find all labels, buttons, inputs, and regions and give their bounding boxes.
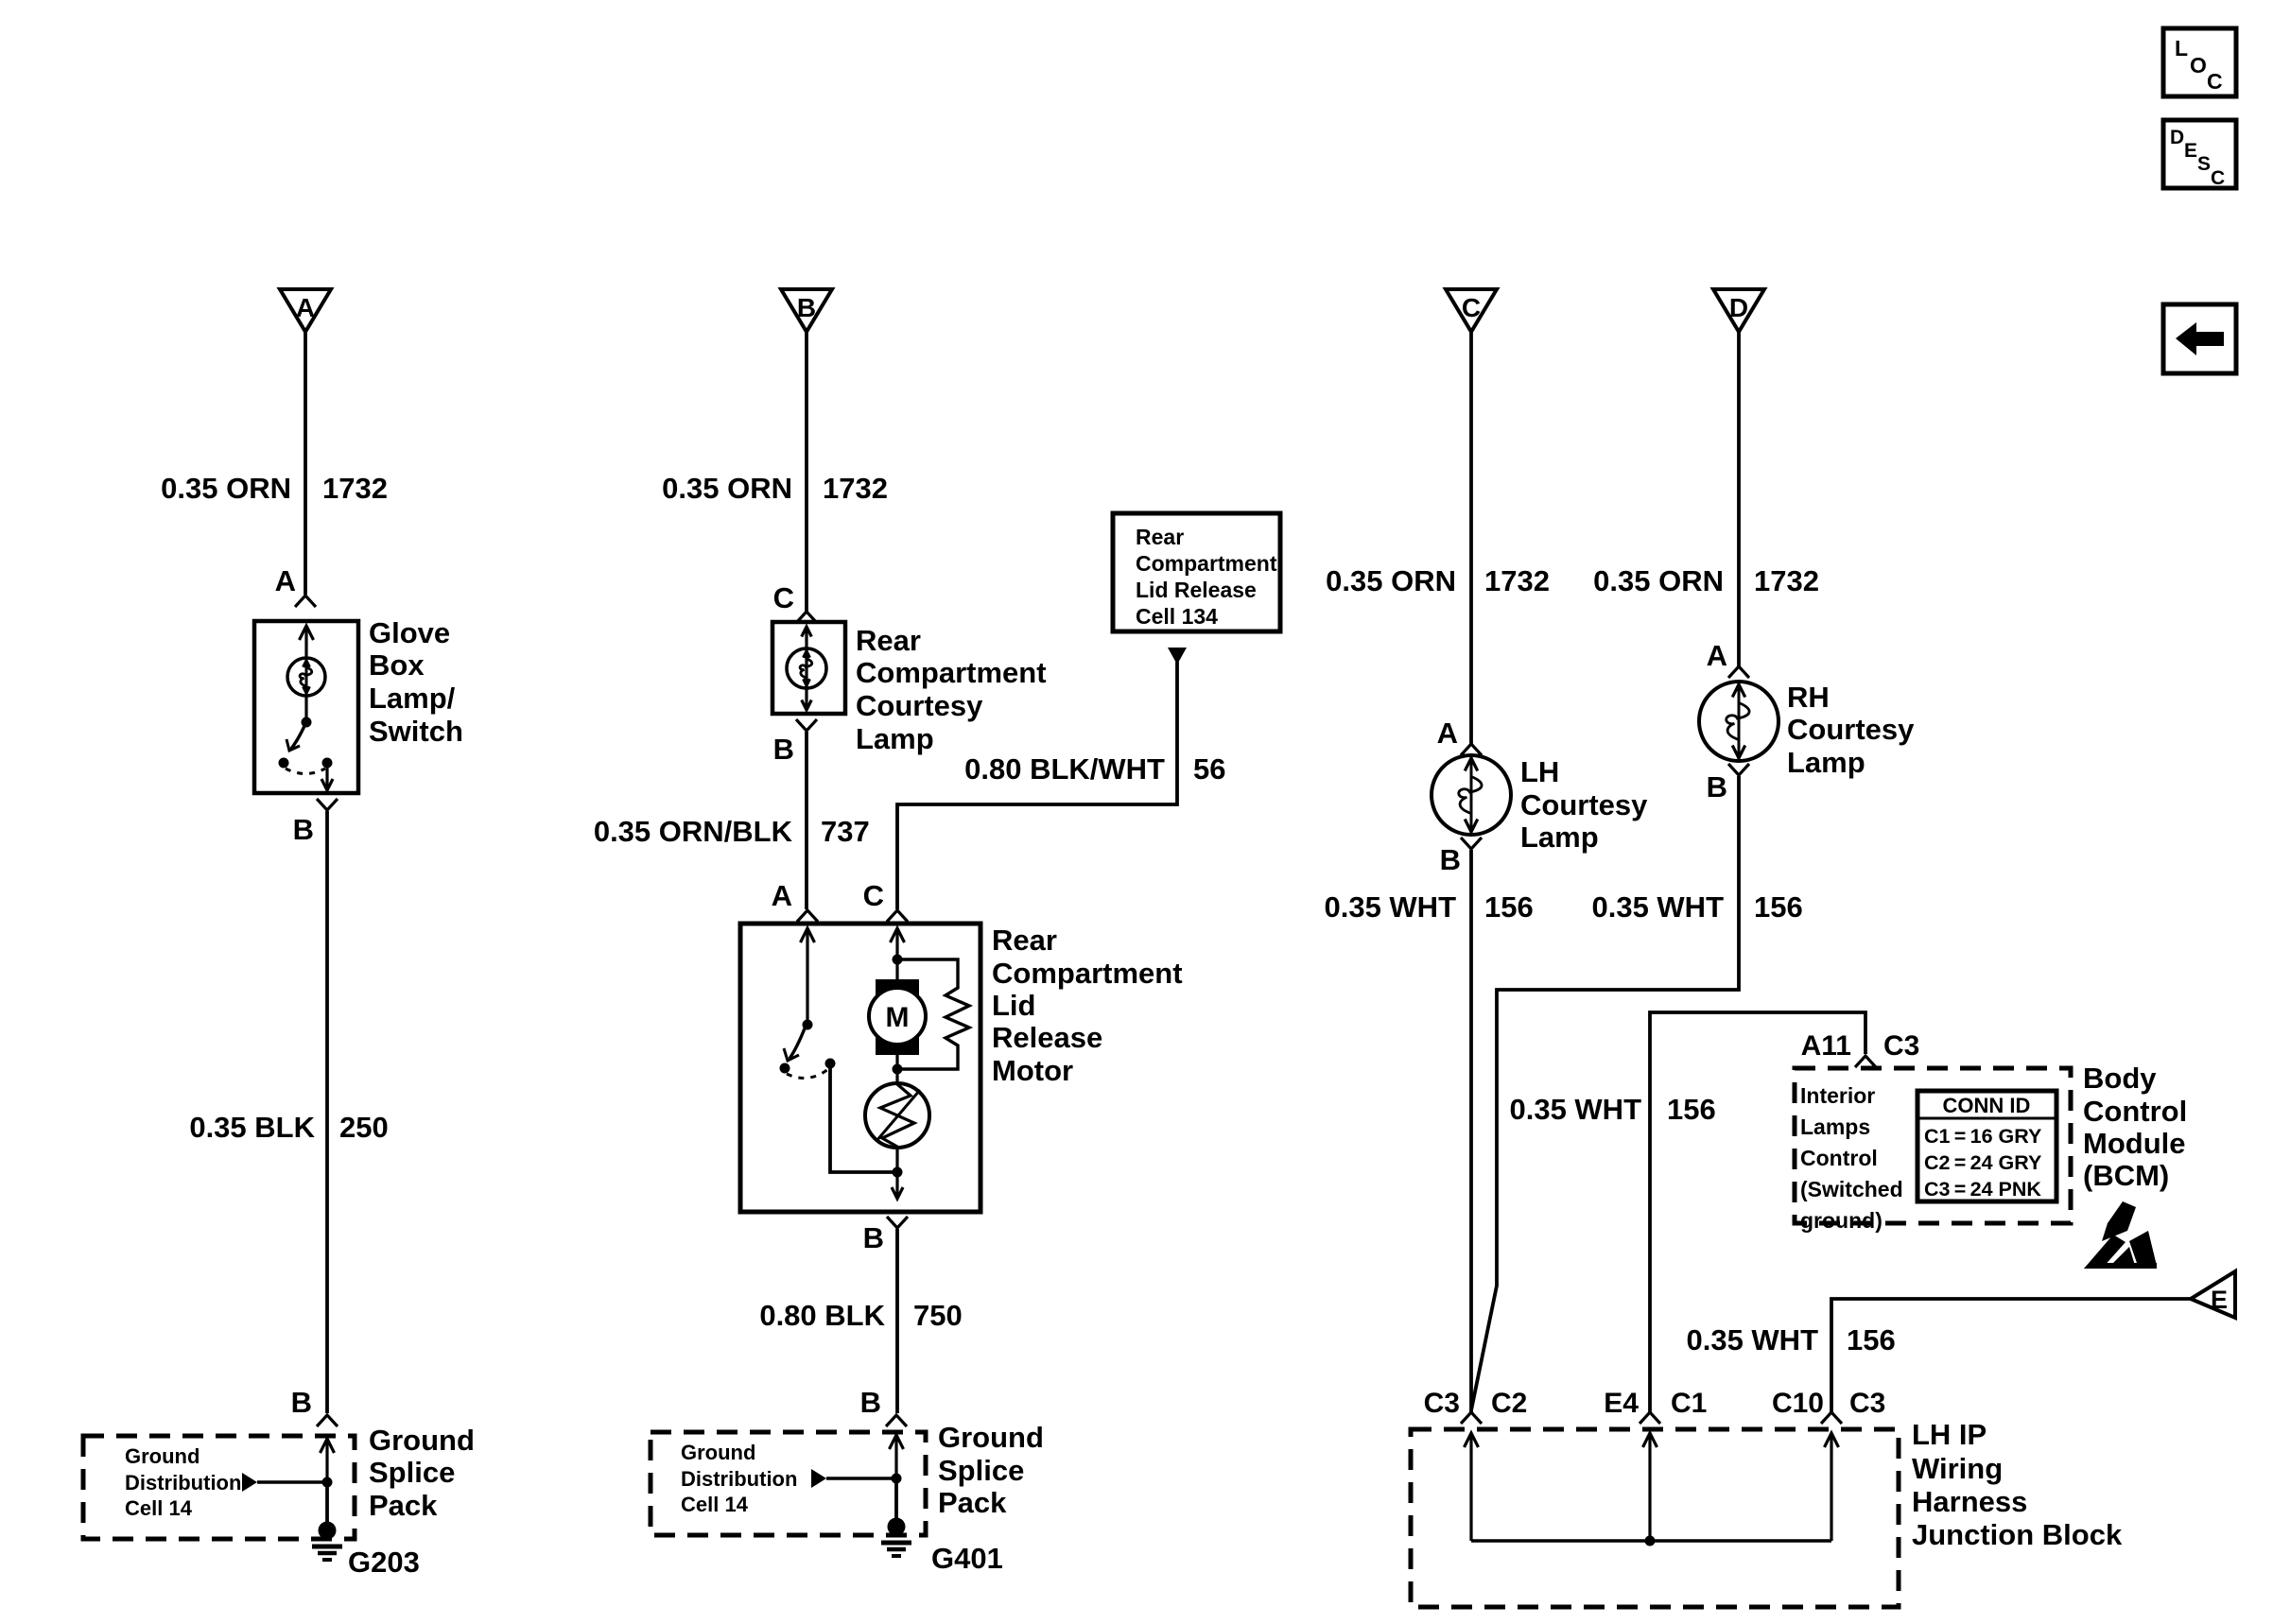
pin A11 terminal [1855, 1056, 1876, 1067]
svg-text:B: B [797, 293, 816, 322]
pin E4 label [1604, 1388, 1639, 1419]
svg-text:Body: Body [2083, 1062, 2157, 1095]
svg-text:Cell 14: Cell 14 [125, 1496, 193, 1520]
wire 0.35 ORN/BLK 737 [805, 732, 808, 909]
svg-text:Glove: Glove [369, 616, 450, 649]
ground distribution feed arrow [242, 1473, 327, 1492]
wire 0.35 ORN 1732 (B to lamp) [805, 332, 808, 612]
svg-text:Box: Box [369, 648, 425, 682]
LH IP junction block box [1411, 1429, 1899, 1607]
interior lamps control note [1800, 1083, 1903, 1233]
LH IP junction block label [1912, 1418, 2123, 1551]
pin C3/C2 terminal [1461, 1412, 1482, 1424]
splice input arrow [321, 1439, 335, 1482]
pin C10 label [1772, 1388, 1824, 1419]
DESC page-index box [2163, 120, 2236, 189]
wire 0.35 ORN 1732 (A to glove box) [304, 332, 307, 595]
body control module box [1795, 1068, 2071, 1223]
svg-text:E: E [2211, 1286, 2228, 1314]
wire 0.80 BLK/WHT 56 [897, 662, 1177, 909]
svg-text:Lid: Lid [992, 989, 1036, 1022]
svg-text:B: B [773, 733, 794, 766]
splice junction [322, 1477, 333, 1488]
connector D [1713, 289, 1764, 332]
svg-text:Distribution: Distribution [681, 1467, 797, 1491]
svg-text:1732: 1732 [322, 472, 388, 505]
svg-text:156: 156 [1484, 890, 1534, 924]
circuit breaker [865, 1083, 929, 1148]
svg-text:Lamp/: Lamp/ [369, 682, 456, 715]
motor switch dashed arc [787, 1069, 828, 1078]
RH courtesy lamp label [1787, 681, 1915, 779]
svg-text:S: S [2197, 153, 2211, 175]
label 0.80 BLK/WHT 56 [964, 752, 1225, 786]
RH courtesy lamp [1699, 682, 1778, 761]
junction block bus [1471, 1539, 1831, 1543]
svg-text:(BCM): (BCM) [2083, 1159, 2169, 1192]
svg-text:C1: C1 [1671, 1388, 1707, 1419]
rear compartment lid release motor label [992, 924, 1183, 1087]
svg-text:0.80 BLK: 0.80 BLK [759, 1299, 885, 1332]
svg-text:Cell 14: Cell 14 [681, 1493, 749, 1516]
glove box lamp [287, 658, 325, 696]
pin A label (LH lamp) [1437, 717, 1458, 750]
ground splice pack label (mid) [938, 1421, 1044, 1519]
ground G203 [312, 1522, 342, 1561]
label 0.35 ORN/BLK 737 [594, 815, 870, 848]
pin C2 label [1491, 1388, 1527, 1419]
svg-text:156: 156 [1847, 1323, 1896, 1356]
label 0.35 WHT 156 (BCM) [1509, 1093, 1715, 1126]
ground G401 [881, 1518, 911, 1557]
svg-text:Lamps: Lamps [1800, 1114, 1870, 1139]
svg-text:Rear: Rear [1136, 525, 1184, 549]
svg-text:C2 = 24 GRY: C2 = 24 GRY [1924, 1151, 2041, 1174]
pin E4/C1 terminal [1640, 1412, 1660, 1424]
svg-text:1732: 1732 [823, 472, 888, 505]
svg-text:A: A [1437, 717, 1458, 750]
svg-text:0.35 WHT: 0.35 WHT [1591, 890, 1724, 924]
label G401 [931, 1542, 1003, 1575]
label 0.35 WHT 156 (LH) [1324, 890, 1533, 924]
svg-text:LH: LH [1520, 755, 1559, 788]
CONN ID table [1917, 1091, 2056, 1201]
pin A11 label [1801, 1030, 1851, 1062]
wire 0.35 ORN 1732 (D to RH lamp) [1737, 332, 1741, 666]
svg-text:C: C [2211, 167, 2225, 189]
svg-text:Motor: Motor [992, 1054, 1073, 1087]
ground distribution note (left) [125, 1444, 241, 1520]
pin B label (splice) [291, 1386, 312, 1419]
wire 0.35 WHT 156 (BCM A11 to C1) [1650, 1012, 1865, 1412]
svg-text:E4: E4 [1604, 1388, 1639, 1419]
pin C3 label (junction right) [1849, 1388, 1885, 1419]
svg-text:0.35 WHT: 0.35 WHT [1509, 1093, 1641, 1126]
svg-text:156: 156 [1667, 1093, 1716, 1126]
pin B label (motor) [863, 1221, 884, 1254]
svg-text:C: C [773, 581, 794, 614]
svg-text:C3: C3 [1424, 1388, 1460, 1419]
pin A terminal (LH lamp) [1461, 744, 1482, 755]
svg-text:Splice: Splice [938, 1454, 1024, 1487]
svg-text:G203: G203 [348, 1546, 420, 1579]
ground splice pack box (mid) [651, 1432, 926, 1535]
svg-text:Ground: Ground [681, 1441, 755, 1464]
svg-text:156: 156 [1754, 890, 1803, 924]
rear compartment courtesy lamp label [856, 624, 1047, 755]
svg-text:0.35 ORN: 0.35 ORN [161, 472, 291, 505]
pin C label (motor) [863, 879, 884, 912]
motor feed arrow [891, 928, 905, 979]
ground distribution feed arrow (mid) [811, 1469, 896, 1488]
body control module label [2083, 1062, 2187, 1192]
motor branch junction (top) [893, 955, 903, 965]
label 0.35 ORN 1732 (D) [1593, 564, 1819, 597]
svg-text:0.35 ORN: 0.35 ORN [662, 472, 792, 505]
splice junction (mid) [892, 1474, 902, 1484]
label 0.35 BLK 250 [189, 1111, 388, 1144]
svg-text:O: O [2190, 53, 2207, 78]
svg-text:L: L [2175, 36, 2188, 60]
rear compartment lid release motor box [740, 924, 980, 1212]
feed box output triangle [1168, 648, 1187, 665]
svg-text:ground): ground) [1800, 1208, 1883, 1233]
svg-text:Control: Control [1800, 1146, 1878, 1170]
svg-text:B: B [1707, 770, 1727, 803]
motor switch arm [784, 1028, 805, 1061]
svg-text:Junction Block: Junction Block [1912, 1518, 2123, 1551]
svg-text:B: B [291, 1386, 312, 1419]
svg-text:Courtesy: Courtesy [1520, 788, 1648, 821]
connector C [1446, 289, 1497, 332]
junction block arrow C1 [1643, 1433, 1657, 1541]
splice-to-ground wire [325, 1482, 329, 1530]
pin A label (motor) [772, 879, 792, 912]
svg-text:C: C [2207, 69, 2223, 94]
motor switch contact right [825, 1059, 836, 1069]
LOC page-index box [2163, 28, 2236, 96]
motor M [869, 988, 926, 1045]
svg-text:G401: G401 [931, 1542, 1003, 1575]
pin B label (splice mid) [860, 1386, 881, 1419]
motor branch junction (bottom) [893, 1147, 903, 1178]
courtesy lamp output arrow [802, 700, 812, 711]
wire 0.35 WHT 156 (RH lamp to C3) [1471, 776, 1739, 1410]
svg-text:Switch: Switch [369, 715, 463, 748]
pin B label (LH lamp) [1440, 843, 1461, 876]
connector E [2191, 1271, 2235, 1318]
svg-text:B: B [863, 1221, 884, 1254]
svg-text:Compartment: Compartment [992, 957, 1183, 990]
rear compartment courtesy lamp box [772, 622, 845, 714]
svg-text:A: A [296, 293, 315, 322]
svg-text:C3: C3 [1849, 1388, 1885, 1419]
svg-text:Rear: Rear [992, 924, 1057, 957]
motor switch return wire [830, 1063, 897, 1172]
svg-text:C: C [863, 879, 884, 912]
svg-text:C1 = 16 GRY: C1 = 16 GRY [1924, 1125, 2041, 1148]
svg-text:B: B [1440, 843, 1461, 876]
junction block arrow C2 [1465, 1433, 1479, 1541]
rear compartment lid release note [1136, 525, 1277, 629]
svg-text:LH IP: LH IP [1912, 1418, 1987, 1451]
svg-text:0.35 ORN: 0.35 ORN [1326, 564, 1456, 597]
svg-text:1732: 1732 [1484, 564, 1550, 597]
switch arm [286, 726, 304, 751]
svg-text:C10: C10 [1772, 1388, 1824, 1419]
svg-text:Control: Control [2083, 1095, 2187, 1128]
motor branch junction (mid) [893, 1055, 903, 1083]
LH courtesy lamp label [1520, 755, 1648, 854]
svg-text:Pack: Pack [369, 1489, 438, 1522]
motor switch pivot [803, 1020, 813, 1030]
pin B terminal (courtesy lamp) [796, 719, 817, 731]
switch contact left [279, 758, 289, 769]
pin C label (courtesy lamp) [773, 581, 794, 614]
svg-text:D: D [1729, 293, 1748, 322]
back-arrow box [2163, 304, 2236, 373]
pin A label (RH lamp) [1707, 639, 1727, 672]
svg-text:0.35 BLK: 0.35 BLK [189, 1111, 315, 1144]
svg-text:Compartment: Compartment [1136, 551, 1277, 576]
svg-text:Splice: Splice [369, 1456, 455, 1489]
glove box lamp/switch box [254, 621, 358, 793]
junction block arrow C3 [1825, 1433, 1839, 1541]
svg-text:Lamp: Lamp [856, 722, 934, 755]
svg-text:0.80 BLK/WHT: 0.80 BLK/WHT [964, 752, 1165, 786]
wire 0.35 ORN 1732 (C to LH lamp) [1469, 332, 1473, 744]
svg-text:Wiring: Wiring [1912, 1452, 2003, 1485]
pin C10/C3 terminal [1821, 1412, 1842, 1424]
svg-text:C3 = 24 PNK: C3 = 24 PNK [1924, 1178, 2041, 1201]
pin A terminal [295, 596, 316, 607]
motor switch contact left [780, 1063, 790, 1074]
svg-text:0.35 WHT: 0.35 WHT [1324, 890, 1456, 924]
label 0.80 BLK 750 [759, 1299, 962, 1332]
pin B terminal (splice mid) [886, 1415, 907, 1426]
svg-text:Interior: Interior [1800, 1083, 1875, 1108]
motor M brushes [876, 979, 919, 1055]
svg-text:A: A [772, 879, 792, 912]
pin B label (glove box) [293, 813, 314, 846]
motor output arrow [892, 1172, 903, 1199]
motor switch feed arrow [801, 928, 815, 1023]
pin C terminal (motor) [887, 910, 908, 922]
svg-text:0.35 ORN: 0.35 ORN [1593, 564, 1724, 597]
svg-text:B: B [293, 813, 314, 846]
glove box lamp-switch link [304, 696, 307, 720]
wire 0.80 BLK 750 [895, 1229, 899, 1413]
svg-text:Module: Module [2083, 1127, 2186, 1160]
svg-text:Release: Release [992, 1021, 1102, 1054]
svg-text:A: A [1707, 639, 1727, 672]
label 0.35 ORN 1732 (mid) [662, 472, 888, 505]
ground splice pack label (left) [369, 1424, 475, 1522]
svg-text:Lamp: Lamp [1520, 821, 1599, 854]
svg-text:Lid Release: Lid Release [1136, 578, 1257, 602]
svg-text:C3: C3 [1883, 1030, 1919, 1062]
svg-text:A11: A11 [1801, 1030, 1851, 1062]
pin C1 label [1671, 1388, 1707, 1419]
ground splice pack box (left) [83, 1436, 355, 1539]
label 0.35 ORN 1732 [161, 472, 388, 505]
switch contact right [322, 758, 333, 769]
pin B terminal (glove box) [317, 799, 338, 810]
svg-text:Lamp: Lamp [1787, 746, 1865, 779]
svg-text:D: D [2170, 127, 2184, 148]
svg-text:Distribution: Distribution [125, 1471, 241, 1494]
glove box internal feed arrow [300, 626, 314, 658]
glove box lamp/switch label [369, 616, 463, 748]
pin A terminal (motor) [797, 910, 818, 922]
pin A label (glove box) [275, 564, 296, 597]
pin B terminal (splice) [317, 1415, 338, 1426]
svg-text:0.35 WHT: 0.35 WHT [1686, 1323, 1818, 1356]
label 0.35 ORN 1732 (C) [1326, 564, 1550, 597]
pin B label (courtesy lamp) [773, 733, 794, 766]
wire 0.35 WHT 156 (E to C3) [1831, 1299, 2191, 1412]
svg-text:56: 56 [1193, 752, 1225, 786]
pin B terminal (RH lamp) [1728, 764, 1749, 775]
svg-text:CONN ID: CONN ID [1943, 1094, 2031, 1117]
svg-text:Pack: Pack [938, 1486, 1007, 1519]
pin B terminal (LH lamp) [1461, 838, 1482, 849]
connector B [781, 289, 832, 332]
rear compartment courtesy lamp [787, 648, 826, 688]
svg-text:B: B [860, 1386, 881, 1419]
svg-text:E: E [2184, 140, 2197, 162]
splice input arrow (mid) [890, 1435, 904, 1478]
glove box output arrow [321, 766, 333, 790]
svg-text:250: 250 [339, 1111, 389, 1144]
svg-text:Courtesy: Courtesy [1787, 713, 1915, 746]
svg-text:Cell 134: Cell 134 [1136, 604, 1218, 629]
courtesy lamp feed arrow [802, 627, 812, 709]
svg-text:750: 750 [913, 1299, 963, 1332]
svg-text:1732: 1732 [1754, 564, 1819, 597]
label G203 [348, 1546, 420, 1579]
ground distribution note (mid) [681, 1441, 797, 1516]
pin C3 label (BCM) [1883, 1030, 1919, 1062]
pin C3 label (junction left) [1424, 1388, 1460, 1419]
svg-text:Ground: Ground [125, 1444, 200, 1468]
label 0.35 WHT 156 (E) [1686, 1323, 1895, 1356]
splice-to-ground wire (mid) [894, 1478, 898, 1527]
pin C terminal (courtesy lamp) [796, 612, 817, 623]
svg-text:RH: RH [1787, 681, 1830, 714]
rear compartment lid release feed box [1113, 513, 1280, 631]
wire 0.35 BLK 250 [325, 811, 329, 1413]
svg-text:737: 737 [821, 815, 870, 848]
pin B label (RH lamp) [1707, 770, 1727, 803]
resistor branch [897, 959, 969, 1069]
switch throw dashed arc [286, 769, 325, 774]
svg-text:C: C [1462, 293, 1481, 322]
svg-text:A: A [275, 564, 296, 597]
svg-text:Rear: Rear [856, 624, 921, 657]
svg-text:Harness: Harness [1912, 1485, 2027, 1518]
svg-text:C2: C2 [1491, 1388, 1527, 1419]
switch pivot junction [302, 717, 312, 728]
junction block bus junction [1645, 1536, 1656, 1546]
svg-text:(Switched: (Switched [1800, 1177, 1903, 1201]
LH courtesy lamp [1431, 755, 1511, 835]
ESD sensitivity symbol [2084, 1201, 2157, 1269]
pin A terminal (RH lamp) [1728, 666, 1749, 678]
svg-text:Courtesy: Courtesy [856, 689, 983, 722]
svg-text:0.35 ORN/BLK: 0.35 ORN/BLK [594, 815, 793, 848]
wire 0.35 WHT 156 (LH lamp to C2) [1469, 850, 1473, 1412]
svg-text:Ground: Ground [369, 1424, 475, 1457]
svg-text:M: M [886, 1002, 910, 1033]
svg-text:Compartment: Compartment [856, 656, 1047, 689]
label 0.35 WHT 156 (RH) [1591, 890, 1802, 924]
pin B terminal (motor) [887, 1217, 908, 1228]
connector A [280, 289, 331, 332]
svg-text:Ground: Ground [938, 1421, 1044, 1454]
